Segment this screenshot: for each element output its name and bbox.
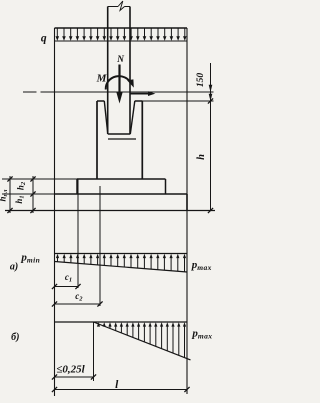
svg-text:h: h bbox=[196, 154, 207, 160]
svg-text:150: 150 bbox=[196, 73, 206, 88]
svg-text:≤0,25l: ≤0,25l bbox=[56, 364, 85, 376]
svg-text:б): б) bbox=[11, 332, 19, 343]
svg-text:M: M bbox=[96, 73, 108, 85]
svg-text:q: q bbox=[41, 33, 47, 45]
svg-text:N: N bbox=[116, 55, 125, 65]
svg-text:а): а) bbox=[10, 262, 18, 273]
